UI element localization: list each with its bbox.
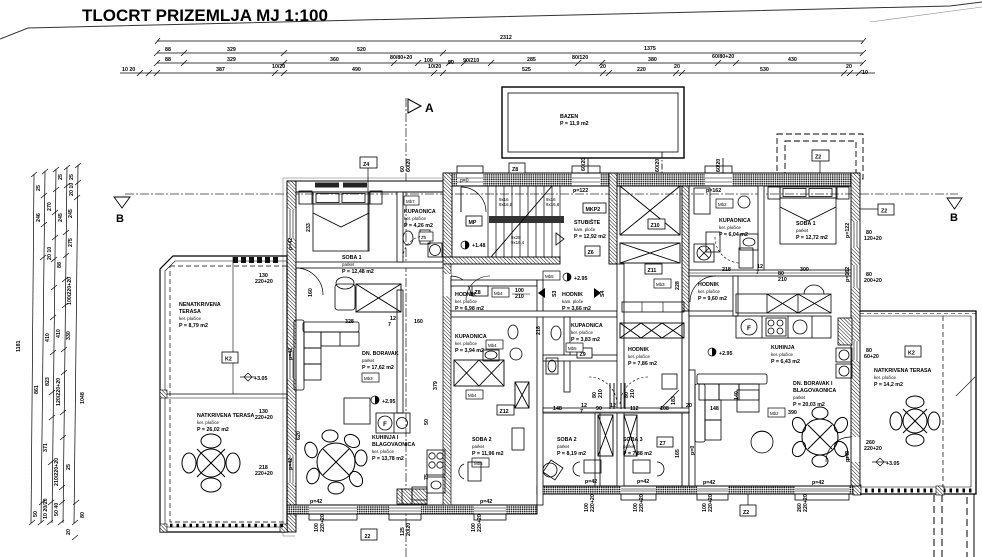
svg-text:530: 530 <box>760 67 769 73</box>
svg-text:430: 430 <box>788 57 797 63</box>
terrace table with 4 chairs <box>182 434 240 492</box>
terrace divider <box>165 393 287 395</box>
pool leader <box>587 158 589 173</box>
svg-text:20 10: 20 10 <box>47 247 53 260</box>
22 box <box>361 529 377 540</box>
svg-text:861: 861 <box>34 385 40 394</box>
site boundary line <box>0 2 982 39</box>
svg-text:kam. ploče: kam. ploče <box>562 299 584 304</box>
svg-text:parket: parket <box>796 228 809 233</box>
svg-text:KUPAONICA: KUPAONICA <box>571 323 603 329</box>
section line A <box>406 98 434 557</box>
dim row center bottom <box>543 411 690 413</box>
Z2 label top <box>812 150 829 186</box>
svg-text:360: 360 <box>330 57 339 63</box>
svg-text:60/20: 60/20 <box>716 159 722 172</box>
svg-text:50: 50 <box>448 60 454 66</box>
svg-text:410: 410 <box>56 329 62 338</box>
svg-text:328: 328 <box>345 319 354 325</box>
svg-text:P = 6,98 m2: P = 6,98 m2 <box>455 306 484 312</box>
divider wall center/right <box>682 186 689 311</box>
svg-text:+2.95: +2.95 <box>574 276 587 282</box>
door arc kupaonica right <box>715 237 739 263</box>
svg-text:F: F <box>383 422 387 428</box>
svg-text:ker. pločice: ker. pločice <box>455 341 478 346</box>
fridge hatch <box>838 318 852 345</box>
svg-text:218: 218 <box>722 267 731 273</box>
svg-text:ker. pločice: ker. pločice <box>698 289 721 294</box>
bed right <box>768 187 849 244</box>
top dimension row 3 <box>154 60 866 66</box>
svg-text:ker. pločice: ker. pločice <box>719 225 742 230</box>
svg-text:60/20: 60/20 <box>655 159 661 172</box>
svg-text:25: 25 <box>66 464 72 470</box>
svg-text:220+20: 220+20 <box>255 471 273 477</box>
svg-text:K2: K2 <box>908 351 915 357</box>
top dimension row 1 (2312) <box>155 38 866 44</box>
svg-text:B: B <box>950 212 958 224</box>
svg-text:BLAGOVAONICA: BLAGOVAONICA <box>793 388 836 394</box>
svg-text:NATKRIVENA TERASA: NATKRIVENA TERASA <box>874 368 932 374</box>
wardrobe top right bedroom <box>706 232 753 268</box>
left dimension ticks <box>29 163 81 540</box>
roof overhang outline <box>283 178 446 536</box>
svg-text:220+20: 220+20 <box>477 514 483 532</box>
svg-text:ker. pločice: ker. pločice <box>628 354 651 359</box>
svg-text:P = 12,48 m2: P = 12,48 m2 <box>342 269 374 275</box>
svg-text:120+20: 120+20 <box>864 236 882 242</box>
svg-text:ker. pločice: ker. pločice <box>771 352 794 357</box>
svg-text:525: 525 <box>522 67 531 73</box>
svg-text:10 20: 10 20 <box>122 67 135 73</box>
svg-text:2312: 2312 <box>500 35 512 41</box>
svg-text:10 20/20: 10 20/20 <box>43 498 49 519</box>
svg-text:200+20: 200+20 <box>864 278 882 284</box>
armchair <box>335 277 355 310</box>
svg-text:HODNIK: HODNIK <box>628 347 649 353</box>
K2 label left <box>222 352 238 363</box>
svg-text:233: 233 <box>306 223 312 232</box>
svg-text:Mb7: Mb7 <box>406 199 415 204</box>
svg-text:10/20: 10/20 <box>428 64 441 70</box>
svg-text:160: 160 <box>308 288 314 297</box>
svg-text:112: 112 <box>630 406 639 412</box>
svg-text:S3: S3 <box>552 290 558 297</box>
stairwell bottom wall <box>443 257 560 264</box>
svg-text:50: 50 <box>424 419 430 425</box>
svg-text:ker. pločice: ker. pločice <box>197 420 220 425</box>
svg-text:B: B <box>116 213 124 225</box>
corner posts <box>160 390 167 398</box>
svg-text:NATKRIVENA TERASA: NATKRIVENA TERASA <box>197 413 255 419</box>
X cabinet row <box>620 323 684 338</box>
kitchen left apartment <box>376 413 445 500</box>
svg-text:50: 50 <box>33 511 39 517</box>
svg-text:80/80+20: 80/80+20 <box>390 55 412 61</box>
west wall lower continuation <box>443 264 451 505</box>
svg-text:P = 9,60 m2: P = 9,60 m2 <box>698 296 727 302</box>
svg-text:p=162: p=162 <box>845 267 851 282</box>
svg-text:285: 285 <box>527 57 536 63</box>
S3 S4 arrows <box>538 288 606 298</box>
svg-text:1048: 1048 <box>80 392 86 404</box>
divider lower <box>682 311 689 486</box>
svg-text:p=42: p=42 <box>288 458 294 470</box>
center hodnik <box>543 271 560 280</box>
svg-text:220+20: 220+20 <box>320 514 326 532</box>
left dimension column lines <box>31 165 78 523</box>
svg-text:parket: parket <box>342 262 355 267</box>
svg-text:DN. BORAVAK I: DN. BORAVAK I <box>793 381 833 387</box>
svg-text:7: 7 <box>388 322 391 328</box>
svg-text:210: 210 <box>630 389 636 398</box>
svg-text:220+20: 220+20 <box>864 446 882 452</box>
svg-text:parket: parket <box>472 444 485 449</box>
svg-text:MP: MP <box>469 220 477 226</box>
site boundary spur <box>870 7 982 22</box>
dining table left (7 chairs) <box>303 430 367 494</box>
svg-text:490: 490 <box>352 67 361 73</box>
svg-text:390: 390 <box>788 410 797 416</box>
svg-text:SOBA 2: SOBA 2 <box>472 437 492 443</box>
interior walls thin <box>296 186 851 505</box>
left wing top wall <box>287 181 446 192</box>
window gap 3 <box>705 166 732 194</box>
svg-text:P = 12,92 m2: P = 12,92 m2 <box>574 234 606 240</box>
svg-text:108: 108 <box>660 406 669 412</box>
svg-text:220: 220 <box>637 67 646 73</box>
left dimension labels (rotated) <box>16 174 86 535</box>
Z2 label right <box>860 204 894 215</box>
svg-text:10: 10 <box>862 70 868 76</box>
svg-text:Z2: Z2 <box>815 155 821 161</box>
top dimension row 2 <box>154 50 866 56</box>
MKP2 label <box>583 203 606 213</box>
svg-text:A: A <box>425 101 434 115</box>
wall left-wing vertical <box>397 192 403 262</box>
terrace inner dashed <box>170 266 287 522</box>
svg-text:380: 380 <box>648 57 657 63</box>
svg-text:245: 245 <box>58 213 64 222</box>
svg-text:220+20: 220+20 <box>255 415 273 421</box>
svg-text:P = 6,04 m2: P = 6,04 m2 <box>719 232 748 238</box>
svg-text:25: 25 <box>69 174 75 180</box>
svg-text:9x16,4: 9x16,4 <box>511 240 525 245</box>
svg-text:20: 20 <box>66 529 72 535</box>
top wall main (hatched) <box>446 173 860 186</box>
svg-text:KUPAONICA: KUPAONICA <box>719 218 751 224</box>
svg-text:10/20: 10/20 <box>272 64 285 70</box>
bottom-right extension <box>934 494 974 557</box>
svg-text:Z2: Z2 <box>743 510 749 516</box>
svg-text:DN. BORAVAK: DN. BORAVAK <box>362 351 399 357</box>
kitchen cabinet dark block <box>397 489 427 504</box>
svg-text:P = 14,2 m2: P = 14,2 m2 <box>874 382 903 388</box>
svg-text:parket: parket <box>557 444 570 449</box>
svg-text:SOBA 1: SOBA 1 <box>796 221 816 227</box>
svg-text:p=42: p=42 <box>288 348 294 360</box>
svg-text:Z6: Z6 <box>588 250 594 256</box>
svg-text:100/220+20: 100/220+20 <box>67 277 73 305</box>
svg-text:STUBIŠTE: STUBIŠTE <box>574 218 601 226</box>
svg-text:330: 330 <box>66 331 72 340</box>
svg-text:MKP2: MKP2 <box>586 207 601 213</box>
svg-text:TERASA: TERASA <box>179 309 201 315</box>
svg-text:KUHINJA: KUHINJA <box>771 345 795 351</box>
svg-text:SOBA 2: SOBA 2 <box>557 437 577 443</box>
svg-text:p=42: p=42 <box>703 480 715 486</box>
svg-text:Mb3: Mb3 <box>364 376 373 381</box>
svg-text:Mb4: Mb4 <box>494 291 503 296</box>
top dimension row 4 <box>120 70 875 76</box>
svg-text:Mb3: Mb3 <box>656 282 665 287</box>
svg-text:275: 275 <box>68 238 74 247</box>
svg-text:P = 4,26 m2: P = 4,26 m2 <box>404 223 433 229</box>
svg-text:1181: 1181 <box>16 340 22 352</box>
pergola teeth <box>233 257 278 263</box>
svg-text:210: 210 <box>778 277 787 283</box>
svg-text:22: 22 <box>365 534 371 540</box>
svg-text:KUHINJA I: KUHINJA I <box>372 435 399 441</box>
svg-text:Z9: Z9 <box>580 352 586 358</box>
svg-text:P = 13,78 m2: P = 13,78 m2 <box>372 456 404 462</box>
svg-text:7: 7 <box>756 270 759 276</box>
svg-text:379: 379 <box>433 381 439 390</box>
Z11 label <box>645 264 662 274</box>
svg-text:90: 90 <box>596 406 602 412</box>
svg-text:20: 20 <box>686 403 692 409</box>
right terrace table <box>890 396 940 446</box>
svg-text:160: 160 <box>414 319 423 325</box>
svg-text:p=0: p=0 <box>460 178 469 184</box>
MP label <box>466 216 482 226</box>
svg-text:HODNIK: HODNIK <box>562 292 583 298</box>
svg-text:P = 26,02 m2: P = 26,02 m2 <box>197 427 229 433</box>
svg-text:p=162: p=162 <box>706 188 721 194</box>
svg-text:Mb4: Mb4 <box>468 393 477 398</box>
pool BAZEN <box>502 87 684 158</box>
svg-text:60/20: 60/20 <box>581 158 587 171</box>
svg-text:P = 7,88 m2: P = 7,88 m2 <box>623 451 652 457</box>
svg-text:Z4: Z4 <box>363 162 369 168</box>
svg-text:25: 25 <box>36 185 42 191</box>
center corridor walls <box>451 280 537 286</box>
wardrobe dn boravak <box>356 284 401 312</box>
svg-text:410: 410 <box>45 333 51 342</box>
svg-text:p=42: p=42 <box>480 499 492 505</box>
wardrobe right of soba2 <box>598 415 637 456</box>
svg-text:P = 3,94 m2: P = 3,94 m2 <box>455 348 484 354</box>
svg-text:220+20: 220+20 <box>590 494 596 512</box>
svg-text:P = 7,86 m2: P = 7,86 m2 <box>628 361 657 367</box>
svg-text:20: 20 <box>846 64 852 70</box>
stairwell west wall <box>443 173 452 264</box>
svg-text:140: 140 <box>734 391 740 400</box>
section line B <box>114 194 962 225</box>
door jambs soba2/3 <box>610 383 625 409</box>
hodnik left labels <box>472 286 488 296</box>
svg-text:Z11: Z11 <box>648 268 657 274</box>
svg-text:KUPAONICA: KUPAONICA <box>404 209 436 215</box>
svg-text:ker. pločice: ker. pločice <box>372 449 395 454</box>
K2 label right <box>905 346 921 357</box>
svg-text:parket: parket <box>623 444 636 449</box>
sofa left <box>294 320 359 390</box>
svg-text:7: 7 <box>580 409 583 415</box>
svg-text:148: 148 <box>553 406 562 412</box>
svg-text:270: 270 <box>47 202 53 211</box>
svg-text:20 10: 20 10 <box>69 183 75 196</box>
Z2 box bottom <box>740 494 756 516</box>
svg-text:+2.95: +2.95 <box>382 399 395 405</box>
left wall (hatched) <box>287 181 296 532</box>
svg-text:12: 12 <box>610 403 616 409</box>
svg-text:p=122: p=122 <box>845 223 851 238</box>
terrace outline <box>160 256 287 532</box>
svg-text:+3.05: +3.05 <box>254 376 267 382</box>
svg-text:p=42: p=42 <box>812 480 824 486</box>
svg-text:620: 620 <box>296 431 302 440</box>
svg-text:ker. pločice: ker. pločice <box>179 316 202 321</box>
svg-text:90/210: 90/210 <box>463 58 479 64</box>
dining table right <box>790 407 850 467</box>
svg-text:246: 246 <box>36 213 42 222</box>
right apartment <box>689 270 851 276</box>
svg-text:228: 228 <box>675 281 681 290</box>
svg-text:220+20: 220+20 <box>639 494 645 512</box>
Z6 label <box>585 246 600 256</box>
svg-text:220+20: 220+20 <box>255 279 273 285</box>
svg-text:parket: parket <box>362 358 375 363</box>
bottom wall right part <box>537 486 860 494</box>
svg-text:165: 165 <box>675 449 681 458</box>
svg-text:parket: parket <box>793 395 806 400</box>
stairwell east wall <box>609 173 617 264</box>
svg-text:p=42: p=42 <box>288 238 294 250</box>
svg-text:210: 210 <box>598 389 604 398</box>
svg-text:183: 183 <box>671 396 677 405</box>
svg-text:ker. pločice: ker. pločice <box>404 216 427 221</box>
svg-text:Mb4: Mb4 <box>488 343 497 348</box>
desk+chair soba2 <box>459 428 524 481</box>
svg-text:Z2: Z2 <box>881 209 887 215</box>
svg-text:Mb2: Mb2 <box>770 411 779 416</box>
svg-text:20/20: 20/20 <box>406 523 412 536</box>
svg-text:Mb5: Mb5 <box>568 346 577 351</box>
svg-text:9x16,8: 9x16,8 <box>499 202 513 207</box>
svg-text:P = 12,72 m2: P = 12,72 m2 <box>796 235 828 241</box>
svg-text:9x16,8: 9x16,8 <box>546 202 560 207</box>
door arc kitchen right <box>826 437 851 462</box>
desks bottom rooms <box>543 460 664 480</box>
svg-text:60+20: 60+20 <box>864 354 879 360</box>
svg-text:371: 371 <box>43 443 49 452</box>
svg-text:245: 245 <box>68 209 74 218</box>
svg-text:220+20: 220+20 <box>708 494 714 512</box>
Z8 label top wall <box>509 163 525 173</box>
svg-text:kam. ploče: kam. ploče <box>574 227 596 232</box>
svg-text:K2: K2 <box>225 357 232 363</box>
svg-text:218: 218 <box>536 326 542 335</box>
svg-text:ker. pločice: ker. pločice <box>874 375 897 380</box>
svg-text:1375: 1375 <box>644 46 656 52</box>
Z10 label <box>648 219 665 229</box>
svg-text:300: 300 <box>800 267 809 273</box>
desk soba3 top <box>660 374 679 409</box>
svg-text:HODNIK: HODNIK <box>698 282 719 288</box>
door arc hodnik <box>466 276 490 300</box>
svg-text:+3.05: +3.05 <box>886 461 899 467</box>
kitchen right <box>736 285 831 338</box>
long cabinet <box>622 302 684 312</box>
svg-text:210/220+20: 210/220+20 <box>54 458 60 486</box>
svg-text:20: 20 <box>600 64 606 70</box>
svg-text:Z7: Z7 <box>660 441 666 447</box>
svg-text:20: 20 <box>674 64 680 70</box>
svg-text:80: 80 <box>80 512 86 518</box>
svg-text:25: 25 <box>58 174 64 180</box>
window gap 2 <box>572 166 600 194</box>
svg-text:75: 75 <box>424 474 430 480</box>
svg-text:88: 88 <box>165 47 171 53</box>
sofa right <box>695 374 767 442</box>
svg-text:88: 88 <box>57 262 63 268</box>
svg-text:329: 329 <box>227 57 236 63</box>
svg-text:ker. pločice: ker. pločice <box>571 330 594 335</box>
+1.48 <box>461 241 485 249</box>
svg-text:SOBA 3: SOBA 3 <box>623 437 643 443</box>
wardrobe X bottom center <box>454 360 529 408</box>
+2.95 left <box>371 396 395 405</box>
svg-text:Z10: Z10 <box>651 223 660 229</box>
svg-text:S4: S4 <box>600 290 606 297</box>
svg-text:P = 11,96 m2: P = 11,96 m2 <box>472 451 504 457</box>
wardrobe row right bedroom <box>0 0 1 1</box>
svg-text:88: 88 <box>165 57 171 63</box>
svg-text:P = 11,9 m2: P = 11,9 m2 <box>560 121 589 127</box>
svg-text:p=122: p=122 <box>573 188 588 194</box>
svg-text:+2.95: +2.95 <box>719 351 732 357</box>
window gap 1 <box>457 166 483 185</box>
bottom wall left apartment <box>287 505 537 514</box>
bed soba1 left <box>299 191 382 251</box>
svg-text:220+20: 220+20 <box>803 494 809 512</box>
armchair right <box>751 431 773 453</box>
coffee table <box>344 398 370 424</box>
svg-text:P = 17,62 m2: P = 17,62 m2 <box>362 365 394 371</box>
svg-text:Mb2: Mb2 <box>718 202 727 207</box>
svg-text:p=0: p=0 <box>690 446 696 455</box>
+3.05 right <box>872 458 899 467</box>
svg-text:KUPAONICA: KUPAONICA <box>455 334 487 340</box>
svg-text:SOBA 1: SOBA 1 <box>342 255 362 261</box>
svg-text:148: 148 <box>710 406 719 412</box>
svg-text:Z12: Z12 <box>500 409 509 415</box>
door arc stairs <box>461 187 486 212</box>
svg-text:P = 8,19 m2: P = 8,19 m2 <box>557 451 586 457</box>
svg-text:NENATKRIVENA: NENATKRIVENA <box>179 302 221 308</box>
svg-text:120/220+20: 120/220+20 <box>56 378 62 406</box>
svg-text:p=42: p=42 <box>585 479 597 485</box>
door arc boravak west <box>296 268 323 295</box>
dims 218/300 <box>689 272 851 274</box>
svg-text:+1.48: +1.48 <box>472 243 485 249</box>
+3.05 left <box>240 373 267 382</box>
svg-text:60/20: 60/20 <box>406 159 412 172</box>
svg-text:823: 823 <box>45 377 51 386</box>
svg-text:50 40: 50 40 <box>54 503 60 516</box>
svg-text:BLAGOVAONICA: BLAGOVAONICA <box>372 442 415 448</box>
